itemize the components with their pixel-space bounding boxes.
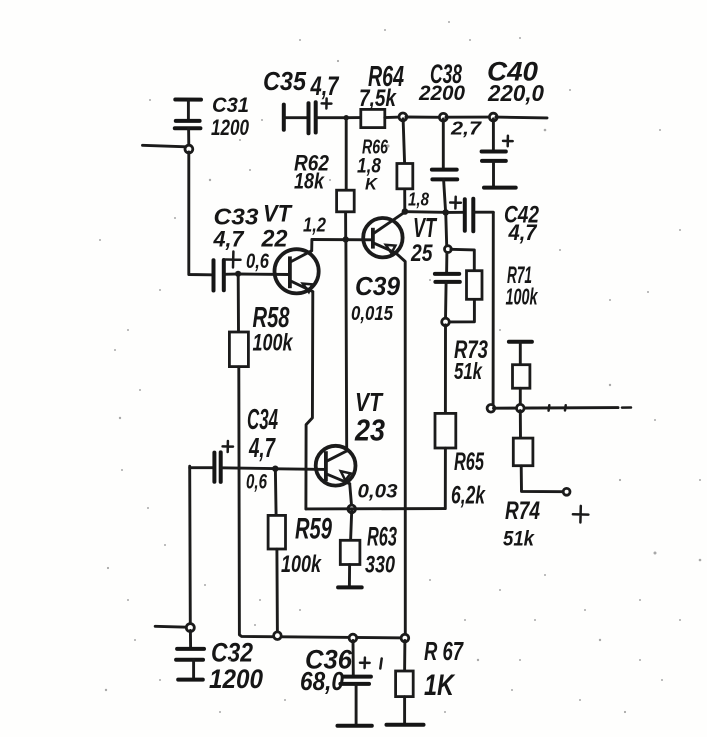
wire left riser to C33 bbox=[189, 152, 211, 275]
node junction R73 R74 bbox=[517, 404, 525, 412]
label node 0,6 lower bbox=[246, 471, 267, 494]
label R73 value bbox=[454, 336, 488, 384]
svg-text:C39: C39 bbox=[355, 271, 401, 301]
wire emitter VT23 bbox=[350, 484, 352, 508]
label node 1,2 bbox=[303, 215, 326, 237]
resistor R59 bbox=[268, 471, 285, 633]
svg-text:R65: R65 bbox=[454, 448, 485, 476]
svg-text:2,7: 2,7 bbox=[450, 119, 482, 139]
svg-text:7,5k: 7,5k bbox=[359, 85, 397, 112]
resistor R71 bbox=[448, 249, 482, 322]
wire rail end bbox=[496, 116, 547, 120]
svg-text:100k: 100k bbox=[506, 284, 539, 310]
wire node 1,2 bbox=[312, 238, 373, 241]
label C35 plus bbox=[322, 99, 332, 109]
wire base VT22 bbox=[239, 273, 290, 276]
wire input stub lower bbox=[155, 625, 187, 629]
resistor R66 bbox=[397, 119, 413, 210]
capacitor C31 bbox=[175, 100, 201, 147]
label R59 value bbox=[281, 513, 332, 579]
svg-text:18k: 18k bbox=[294, 169, 325, 194]
svg-text:100k: 100k bbox=[253, 330, 294, 357]
svg-text:0,6: 0,6 bbox=[246, 471, 267, 494]
resistor R64 bbox=[361, 109, 385, 127]
label R74 value bbox=[503, 497, 540, 551]
node junction C40 bbox=[489, 113, 497, 121]
node junction C31 bbox=[185, 145, 193, 153]
node emitter junction VT23 bbox=[348, 505, 356, 513]
wire emitter rail bbox=[306, 507, 445, 510]
wire base VT23 bbox=[278, 467, 326, 471]
svg-text:51k: 51k bbox=[503, 528, 535, 551]
node R62 tap bbox=[344, 115, 349, 120]
resistor R73 bbox=[513, 342, 530, 406]
label R62 value bbox=[294, 151, 330, 194]
label C34 plus bbox=[223, 441, 233, 452]
label R66 value bbox=[357, 137, 389, 194]
label C33 value bbox=[213, 204, 259, 252]
label C39 value bbox=[351, 271, 401, 325]
node junction C42 bbox=[442, 209, 449, 216]
svg-text:R63: R63 bbox=[367, 522, 397, 552]
label C40 value bbox=[487, 57, 544, 107]
wire bbox=[385, 116, 401, 119]
node base VT23 bbox=[272, 466, 278, 472]
transistor VT23 bbox=[316, 446, 356, 486]
resistor R65 bbox=[435, 325, 456, 508]
wire collector node down bbox=[444, 215, 448, 246]
capacitor C33 bbox=[214, 260, 236, 291]
svg-text:R59: R59 bbox=[295, 513, 332, 546]
svg-text:0,6: 0,6 bbox=[246, 250, 269, 273]
wire bbox=[406, 116, 441, 119]
wire output line bbox=[494, 406, 619, 410]
svg-text:68,0: 68,0 bbox=[300, 666, 344, 696]
capacitor C34 bbox=[190, 452, 273, 482]
svg-text:51k: 51k bbox=[454, 358, 483, 384]
node junction R66 bbox=[399, 113, 407, 121]
capacitor C38 bbox=[432, 119, 457, 210]
resistor R63 bbox=[338, 511, 362, 587]
label C31 value bbox=[211, 94, 250, 140]
svg-text:4,7: 4,7 bbox=[508, 220, 539, 245]
svg-text:25: 25 bbox=[410, 240, 433, 267]
svg-text:1,2: 1,2 bbox=[303, 215, 326, 237]
svg-text:4,7: 4,7 bbox=[310, 71, 340, 101]
label terminal plus bbox=[573, 506, 589, 523]
svg-text:R 67: R 67 bbox=[424, 636, 464, 666]
wire bbox=[346, 116, 361, 119]
wire input stub upper bbox=[143, 145, 187, 147]
capacitor C40 bbox=[482, 119, 516, 188]
wire C42 drop bbox=[492, 213, 495, 406]
svg-text:K: K bbox=[365, 175, 379, 194]
svg-text:23: 23 bbox=[354, 413, 385, 448]
svg-text:1K: 1K bbox=[424, 669, 456, 702]
label C32 value bbox=[209, 638, 263, 695]
svg-text:100k: 100k bbox=[281, 551, 322, 578]
svg-text:VT: VT bbox=[413, 212, 438, 243]
node base VT22 bbox=[235, 271, 241, 277]
label VT25 bbox=[410, 212, 438, 267]
node collector VT25 bbox=[402, 208, 409, 215]
svg-text:22: 22 bbox=[261, 226, 289, 253]
label C33 plus bbox=[226, 252, 241, 268]
label C36 value bbox=[300, 645, 353, 697]
capacitor C35 bbox=[284, 102, 346, 133]
capacitor C32 bbox=[176, 631, 204, 680]
label VT23 bbox=[354, 387, 385, 448]
svg-text:C35: C35 bbox=[263, 66, 306, 96]
label R71 value bbox=[506, 262, 539, 310]
svg-text:4,7: 4,7 bbox=[248, 432, 276, 463]
label C42 value bbox=[504, 202, 540, 246]
label C38 value bbox=[418, 59, 465, 105]
svg-text:C32: C32 bbox=[211, 638, 253, 668]
label node 2,7 bbox=[450, 119, 482, 139]
svg-text:1200: 1200 bbox=[211, 115, 250, 140]
svg-text:220,0: 220,0 bbox=[487, 80, 544, 106]
resistor R62 bbox=[337, 120, 355, 238]
svg-text:1,8: 1,8 bbox=[408, 190, 429, 210]
node junction C38 bbox=[439, 113, 447, 121]
wire output dashes bbox=[549, 405, 631, 410]
power stub R73 bbox=[509, 340, 532, 344]
node junction below C39 bbox=[442, 318, 450, 326]
speckle noise bbox=[99, 21, 701, 713]
label R67 value bbox=[424, 636, 464, 702]
wire collector VT23 riser bbox=[344, 242, 348, 451]
node junction C32 bbox=[186, 624, 194, 632]
node small ring bbox=[445, 246, 452, 253]
wire emitter VT22 drop bbox=[306, 292, 313, 509]
capacitor C39 bbox=[435, 253, 460, 320]
svg-text:330: 330 bbox=[365, 552, 395, 579]
transistor VT22 bbox=[275, 249, 319, 293]
svg-text:1200: 1200 bbox=[209, 664, 263, 694]
transistor VT25 bbox=[363, 213, 403, 258]
wire bbox=[446, 116, 491, 119]
label C35 value bbox=[263, 66, 340, 101]
wire emitter VT25 bbox=[396, 253, 406, 636]
label node 1,8 bbox=[408, 190, 429, 210]
label R65 value bbox=[451, 448, 486, 510]
svg-text:VT: VT bbox=[263, 201, 293, 228]
wire collector VT22 bbox=[310, 240, 313, 251]
node junction base VT25 bbox=[343, 236, 349, 242]
svg-text:0,015: 0,015 bbox=[351, 303, 394, 325]
capacitor C36 bbox=[338, 641, 382, 726]
label R58 value bbox=[253, 302, 294, 357]
node rail R67 bbox=[401, 634, 409, 642]
capacitor C42 bbox=[448, 197, 493, 232]
node rail R59 bbox=[274, 632, 282, 640]
resistor R74 bbox=[513, 411, 563, 492]
label node 0,03 bbox=[358, 482, 398, 503]
svg-text:C31: C31 bbox=[212, 94, 249, 117]
resistor R67 bbox=[387, 641, 424, 725]
label node 0,6 upper bbox=[246, 250, 269, 273]
node rail C36 bbox=[349, 634, 357, 642]
label C34 value bbox=[247, 404, 278, 463]
wire bbox=[408, 210, 444, 214]
node output terminal bbox=[563, 488, 570, 495]
node junction C42 bottom bbox=[487, 405, 495, 413]
label R64 value bbox=[359, 61, 404, 112]
svg-text:0,03: 0,03 bbox=[358, 482, 398, 503]
svg-text:4,7: 4,7 bbox=[213, 227, 246, 252]
svg-text:R74: R74 bbox=[505, 497, 540, 525]
resistor R58 bbox=[229, 276, 407, 638]
label R63 value bbox=[365, 522, 397, 579]
wire left lower riser bbox=[188, 468, 192, 625]
label VT22 bbox=[261, 201, 294, 253]
svg-text:6,2k: 6,2k bbox=[451, 482, 486, 510]
svg-text:2200: 2200 bbox=[418, 82, 465, 105]
